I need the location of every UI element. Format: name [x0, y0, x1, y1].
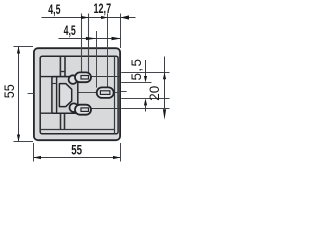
- svg-text:5,5: 5,5: [129, 58, 144, 81]
- bottom screw slot: [81, 108, 89, 112]
- bracket top rib left: [59, 57, 61, 77]
- svg-text:4,5: 4,5: [48, 3, 61, 17]
- dim 5,5 arrow down: [144, 76, 147, 82]
- dim 5,5 lower tail: [145, 105, 147, 112]
- right screw slot: [100, 91, 110, 95]
- bracket inner left edge: [56, 77, 58, 114]
- bottom arrow left: [34, 156, 42, 159]
- bottom slotted screw head: [75, 105, 91, 115]
- interior panel edge vertical right: [114, 56, 116, 134]
- bracket screw circle bottom: [70, 103, 79, 112]
- extension line v4 top: [107, 14, 109, 88]
- dim 20 arrow down wedge: [163, 109, 166, 120]
- arrow right at v2: [81, 16, 89, 19]
- bracket top rib right: [64, 57, 66, 77]
- arrow left big at v5: [121, 15, 130, 19]
- extension line v1 top: [81, 14, 83, 76]
- left dimension line 55: [18, 47, 20, 142]
- bracket foot rib left: [60, 113, 62, 129]
- bottom extension line right: [120, 143, 122, 162]
- top screw slot: [81, 76, 89, 80]
- dim 20 line: [164, 57, 166, 109]
- arrow right at plate edge row2: [112, 37, 121, 40]
- arrow right at v3 row2: [86, 37, 97, 40]
- centerline tick left outer: [28, 93, 34, 95]
- right extension line E3: [121, 98, 169, 100]
- extension line v2 top: [88, 14, 90, 76]
- arrow right at v4: [101, 16, 107, 19]
- bracket top rib rung: [60, 71, 65, 73]
- bracket foot rib right: [64, 113, 66, 129]
- dim 20 arrow up: [163, 73, 166, 80]
- bottom extension line left: [33, 143, 35, 162]
- right extension line E2: [121, 82, 151, 84]
- bracket body: [52, 77, 78, 114]
- right extension line E1: [121, 72, 169, 74]
- right slotted screw head: [97, 87, 114, 98]
- interior panel bottom line: [40, 129, 114, 131]
- bracket top line: [40, 76, 67, 78]
- dim 5,5 arrow up: [144, 98, 147, 105]
- extension line v3 top: [96, 31, 98, 88]
- svg-text:12,7: 12,7: [94, 3, 112, 17]
- right extension line E4: [121, 108, 169, 110]
- bracket bottom line: [40, 112, 67, 114]
- svg-text:55: 55: [2, 84, 18, 98]
- centerline stub right inner: [113, 92, 118, 94]
- dim 5,5 upper tail: [145, 60, 147, 76]
- bracket left tick: [52, 83, 57, 85]
- top slotted screw head: [75, 72, 91, 82]
- plate body outer outline 55x55: [34, 48, 120, 140]
- svg-text:20: 20: [147, 86, 162, 101]
- left extension line bottom: [14, 141, 34, 143]
- bracket screw circle top: [69, 75, 78, 84]
- extension line v5 top: [120, 14, 122, 49]
- D-shaped cutout: [59, 84, 71, 107]
- left arrow up: [17, 47, 20, 54]
- interior tangent line bottom screw tip to edge: [91, 108, 120, 110]
- interior tangent line top screw tip to edge: [91, 76, 120, 78]
- plate inner cap outline: [40, 56, 118, 134]
- bottom arrow right: [113, 156, 121, 159]
- bottom dimension line 55: [34, 157, 121, 159]
- dimension line row2: [59, 38, 121, 40]
- svg-text:4,5: 4,5: [64, 24, 77, 38]
- left arrow down: [17, 135, 20, 142]
- svg-text:55: 55: [71, 143, 82, 158]
- dimension line row1: [42, 17, 136, 19]
- left extension line top: [14, 46, 34, 48]
- centerline segment bracket to right screw: [78, 92, 97, 94]
- centerline dash right outer: [121, 91, 127, 93]
